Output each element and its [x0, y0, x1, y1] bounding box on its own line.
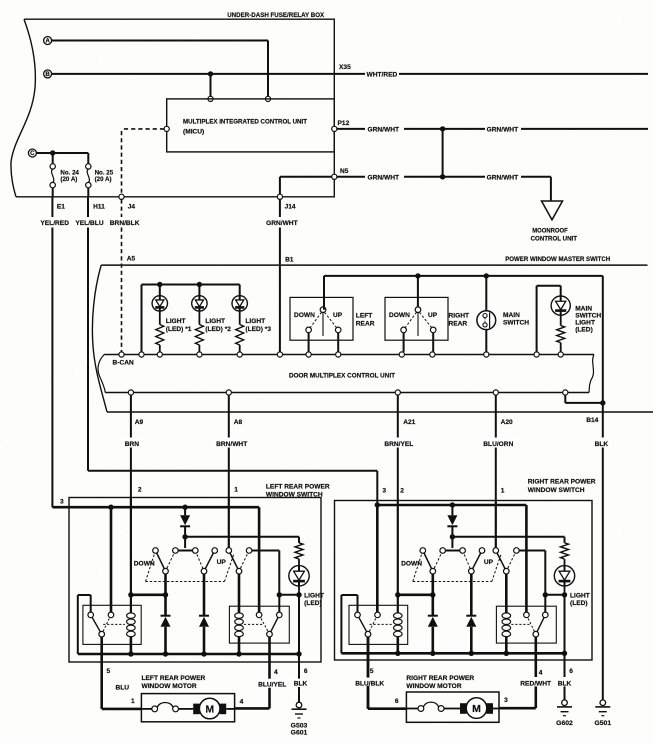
svg-text:MULTIPLEX INTEGRATED CONTROL U: MULTIPLEX INTEGRATED CONTROL UNIT — [183, 118, 307, 125]
diode D3 — [466, 615, 476, 617]
wire BRN/YEL (A21 down) — [397, 395, 399, 437]
wire resistor to LED — [298, 559, 300, 566]
op-amp U1 MICU box — [167, 99, 335, 152]
connector P12 pin — [332, 126, 337, 131]
svg-text:REAR: REAR — [449, 320, 468, 327]
svg-text:LIGHT: LIGHT — [245, 318, 265, 325]
wire main switch to unit — [485, 330, 487, 352]
wire pin5 (armature to motor) — [100, 637, 103, 709]
ground G503/G601 — [296, 702, 302, 708]
relay K2 contact 1 — [524, 612, 530, 618]
node B — [44, 70, 52, 78]
wire pin5 (BLU/BLK) — [367, 637, 370, 677]
wire BLK (B14 down) — [602, 403, 604, 438]
wire LED to return — [298, 586, 300, 595]
svg-text:GRN/WHT: GRN/WHT — [487, 174, 518, 181]
switch SW3 main switch — [477, 311, 496, 330]
node B1 pin — [277, 352, 282, 357]
wire WHT/RED — [334, 73, 365, 75]
node switch pivot — [163, 568, 169, 574]
svg-text:YEL/BLU: YEL/BLU — [75, 220, 103, 227]
switch blade DOWN (solid) — [423, 551, 433, 572]
svg-text:B14: B14 — [586, 417, 598, 424]
switch SW1 left rear (master) — [290, 297, 353, 340]
svg-text:M: M — [472, 703, 481, 715]
svg-text:RIGHT REAR POWER: RIGHT REAR POWER — [406, 675, 474, 682]
junction bus — [163, 651, 168, 656]
connector J14 pin — [277, 194, 282, 199]
LED light (LED) *2 — [192, 296, 207, 311]
svg-text:UP: UP — [217, 559, 227, 566]
svg-text:J14: J14 — [285, 203, 296, 210]
wire C to fuses — [37, 152, 89, 154]
node left-rear DOWN pin — [306, 352, 311, 357]
svg-text:LIGHT: LIGHT — [205, 318, 225, 325]
switch blade mid (solid) — [471, 551, 482, 572]
node switch contact — [246, 548, 252, 554]
svg-text:BLK: BLK — [558, 680, 572, 687]
LED switch light — [289, 566, 309, 586]
switch blade mid (solid) — [204, 551, 215, 572]
wire right-rear pivot feed — [417, 276, 419, 307]
moonroof control unit connector triangle — [542, 201, 563, 220]
wire pin3 to relay contact — [110, 507, 113, 612]
svg-text:LIGHT: LIGHT — [575, 320, 595, 327]
wire BRN/WHT (A8 down) — [228, 395, 230, 437]
node A20 pin — [493, 390, 498, 395]
svg-text:1: 1 — [234, 487, 238, 494]
svg-text:(MICU): (MICU) — [183, 128, 204, 135]
node switch contact — [173, 548, 179, 554]
switch blade DOWN alt (dashed) — [433, 551, 443, 572]
svg-text:LEFT REAR POWER: LEFT REAR POWER — [266, 483, 330, 490]
wire LED2 to resistor — [198, 311, 200, 324]
relay K2 armature — [533, 631, 539, 637]
wire fuse24 to E1 — [52, 188, 54, 197]
svg-text:X35: X35 — [339, 64, 351, 71]
wire B drop to MICU — [210, 74, 212, 97]
svg-text:WINDOW SWITCH: WINDOW SWITCH — [528, 487, 585, 494]
node switch contact — [420, 548, 426, 554]
wire pin3 corner drop — [525, 505, 528, 612]
relay K2 blade — [270, 615, 280, 634]
svg-text:BLU: BLU — [116, 684, 130, 691]
svg-text:2: 2 — [400, 488, 404, 495]
wire LED supply bus — [142, 284, 240, 286]
wire pin6 (BLK) — [298, 654, 300, 679]
relay K2 blade alt (dashed) — [259, 615, 269, 634]
node A9 pin — [128, 390, 133, 395]
svg-text:DOWN: DOWN — [134, 560, 155, 567]
svg-text:(LED): (LED) — [304, 600, 322, 607]
wire coil K2 to bus — [238, 637, 241, 654]
svg-text:BLU/ORN: BLU/ORN — [483, 441, 513, 448]
relay K1 blade alt (dashed) — [102, 615, 111, 634]
node main light return pin — [558, 352, 563, 357]
junction LED1 feed — [157, 282, 162, 287]
junction pin3/diode — [450, 502, 455, 507]
junction right-rear feed — [415, 273, 420, 278]
svg-text:(LED) *3: (LED) *3 — [245, 326, 271, 333]
wire LED to return — [564, 586, 566, 595]
wire contact to LED node — [252, 550, 280, 552]
svg-text:5: 5 — [370, 668, 374, 675]
diode D1 (supply) — [184, 507, 186, 515]
wire switch common feed — [452, 536, 564, 538]
junction bus — [469, 651, 474, 656]
svg-text:SWITCH: SWITCH — [503, 319, 529, 326]
switch blade UP (solid) — [496, 551, 507, 572]
wire resistor R2 to unit — [198, 345, 200, 352]
svg-text:E1: E1 — [57, 203, 65, 210]
wire LED bottom link — [545, 594, 564, 596]
connector N5 pin — [332, 174, 337, 179]
wire GRN/WHT from N5 — [337, 176, 365, 178]
relay K1 blade — [91, 615, 102, 634]
node switch pivot — [430, 568, 436, 574]
wire common to inner contacts — [184, 537, 186, 548]
svg-text:BRN: BRN — [125, 441, 140, 448]
switch linkage (dashed) — [413, 551, 423, 582]
node switch contact — [193, 548, 199, 554]
svg-text:G501: G501 — [594, 720, 611, 727]
svg-text:MAIN: MAIN — [575, 306, 592, 313]
svg-text:A: A — [45, 38, 50, 45]
node switch pivot — [236, 568, 242, 574]
svg-text:GRN/WHT: GRN/WHT — [368, 175, 400, 182]
relay K1 box — [83, 605, 141, 644]
svg-text:UP: UP — [333, 312, 343, 319]
svg-text:3: 3 — [382, 488, 386, 495]
MICU pin (B drop) — [208, 96, 213, 101]
node switch contact — [479, 548, 485, 554]
door multiplex control unit bottom edge — [105, 392, 589, 394]
switch linkage (dashed) — [146, 551, 156, 582]
resistor R4 (main switch light) — [557, 326, 565, 343]
svg-text:LIGHT: LIGHT — [166, 318, 186, 325]
wire LED1 drop — [159, 285, 161, 297]
junction bus — [236, 651, 241, 656]
junction bus — [430, 651, 435, 656]
junction N5 wire — [440, 174, 445, 179]
junction on B wire — [208, 71, 213, 76]
svg-text:B: B — [45, 71, 50, 78]
LED main switch light — [551, 296, 570, 315]
wire pin3 feed (YEL/RED) — [52, 506, 259, 509]
svg-text:1: 1 — [501, 488, 505, 495]
relay K2 armature — [267, 631, 273, 637]
svg-text:4: 4 — [240, 698, 244, 705]
svg-text:GRN/WHT: GRN/WHT — [266, 220, 298, 227]
node switch contact — [460, 548, 466, 554]
node switch contact — [153, 548, 159, 554]
svg-text:A8: A8 — [234, 419, 243, 426]
relay K2 linkage (dashed) — [511, 623, 530, 625]
relay K2 coil — [235, 613, 244, 619]
wire LED2 drop — [198, 285, 200, 297]
switch blade DOWN (solid) — [156, 551, 166, 572]
relay K2 contact 1 — [256, 612, 262, 618]
wire feed to resistor R5 — [564, 537, 566, 543]
relay K1 armature — [99, 631, 105, 637]
svg-text:4: 4 — [539, 670, 543, 677]
svg-text:6: 6 — [569, 668, 573, 675]
master switch box bottom edge — [107, 411, 653, 413]
relay K2 contact 2 — [277, 612, 283, 618]
door multiplex control unit torn right edge — [589, 355, 594, 393]
relay K1 contact 1 — [355, 612, 361, 618]
node switch contact — [440, 548, 446, 554]
node A8 pin — [226, 390, 231, 395]
node switch contact — [493, 548, 499, 554]
wire relay K1 NC wrap — [357, 595, 359, 612]
node LED3 pin — [237, 352, 242, 357]
wire resistor R1 to unit — [159, 345, 161, 352]
switch blade mid alt (dashed) — [195, 551, 204, 572]
relay K2 coil — [502, 613, 511, 619]
wire ground bus — [78, 653, 299, 656]
wire LED bottom link — [279, 594, 299, 596]
svg-text:LIGHT: LIGHT — [570, 593, 590, 600]
wire LED3 to resistor — [239, 311, 241, 324]
svg-text:A5: A5 — [127, 255, 136, 262]
svg-text:YEL/RED: YEL/RED — [40, 220, 69, 227]
svg-text:MAIN: MAIN — [503, 312, 520, 319]
svg-text:1: 1 — [131, 698, 135, 705]
relay K1 blade — [358, 615, 369, 634]
svg-text:RIGHT: RIGHT — [449, 312, 470, 319]
svg-text:A20: A20 — [501, 419, 513, 426]
wire YEL/BLU (H11 down) — [87, 197, 89, 217]
svg-text:POWER WINDOW MASTER SWITCH: POWER WINDOW MASTER SWITCH — [505, 256, 610, 263]
svg-text:G602: G602 — [556, 720, 573, 727]
node switch contact — [226, 548, 232, 554]
svg-text:3: 3 — [60, 499, 64, 506]
relay K1 contact 1 — [88, 612, 94, 618]
wire B to X35 — [52, 73, 334, 75]
relay K2 box — [229, 606, 289, 643]
svg-text:GRN/WHT: GRN/WHT — [487, 127, 518, 134]
junction main-switch feed — [484, 273, 489, 278]
svg-text:UP: UP — [428, 312, 438, 319]
svg-text:(LED): (LED) — [575, 327, 593, 334]
wire link GRN/WHT vertical — [442, 129, 444, 177]
wire DOWN pivot drop — [164, 574, 167, 616]
switch blade mid alt (dashed) — [463, 551, 472, 572]
svg-text:WINDOW MOTOR: WINDOW MOTOR — [406, 683, 461, 690]
svg-text:(20 A): (20 A) — [95, 176, 112, 183]
node main switch pin — [484, 352, 489, 357]
junction bus — [201, 651, 206, 656]
relay K2 box — [496, 606, 556, 643]
node switch contact — [514, 548, 520, 554]
node switch pivot — [469, 568, 475, 574]
svg-text:A9: A9 — [135, 419, 144, 426]
svg-text:BRN/YEL: BRN/YEL — [384, 441, 413, 448]
wire J14 to N5 — [279, 177, 281, 194]
junction bus — [504, 651, 509, 656]
svg-text:(LED) *2: (LED) *2 — [205, 326, 231, 333]
svg-text:BRN/BLK: BRN/BLK — [110, 220, 140, 227]
wire to relay NC contact — [544, 595, 546, 612]
LED switch light — [554, 566, 574, 586]
svg-text:LEFT: LEFT — [356, 312, 372, 319]
svg-text:A21: A21 — [403, 419, 415, 426]
left rear power window switch box — [69, 498, 321, 663]
relay K2 linkage (dashed) — [244, 623, 264, 625]
relay K1 linkage (dashed) — [103, 623, 125, 625]
svg-text:CONTROL UNIT: CONTROL UNIT — [531, 236, 577, 243]
junction pin3/diode — [182, 505, 187, 510]
junction B14 — [600, 400, 605, 405]
resistor R5 (switch light) — [561, 543, 569, 559]
svg-text:LIGHT: LIGHT — [304, 593, 324, 600]
relay K1 linkage (dashed) — [370, 623, 392, 625]
svg-text:LEFT REAR POWER: LEFT REAR POWER — [142, 675, 206, 682]
wire mid pivot drop — [470, 574, 473, 616]
wire resistor R3 to unit — [239, 345, 241, 352]
wire GRN/WHT from P12 — [337, 128, 365, 130]
svg-text:4: 4 — [274, 669, 278, 676]
switch blade UP alt (dashed) — [239, 551, 249, 572]
wire relay K1 NC wrap — [90, 595, 92, 612]
switch blade DOWN alt (dashed) — [166, 551, 176, 572]
junction pin2/pivot link — [128, 592, 133, 597]
svg-text:UNDER-DASH FUSE/RELAY BOX: UNDER-DASH FUSE/RELAY BOX — [227, 12, 325, 19]
svg-text:RIGHT REAR POWER: RIGHT REAR POWER — [528, 479, 596, 486]
relay K1 coil — [127, 613, 136, 619]
node switch pivot — [504, 568, 510, 574]
wire mid pivot drop — [203, 574, 206, 616]
diode D3 — [199, 615, 209, 617]
svg-text:REAR: REAR — [356, 320, 375, 327]
wire fuse25 to H11 — [87, 188, 89, 197]
wire left-rear pivot feed — [323, 307, 325, 310]
relay K1 contact 2 — [108, 612, 114, 618]
svg-text:(LED) *1: (LED) *1 — [166, 326, 192, 333]
wire YEL/RED (E1 down) — [51, 197, 53, 217]
svg-text:BLU/BLK: BLU/BLK — [355, 680, 384, 687]
wire BRN/BLK dashed (J4 down) — [121, 199, 123, 217]
wire LED node to bus — [564, 595, 566, 654]
relay K1 blade alt (dashed) — [368, 615, 378, 634]
wire pin5 (armature to motor) — [367, 637, 370, 709]
master switch box torn left edge — [92, 265, 107, 412]
wire DOWN pivot drop — [431, 574, 434, 616]
svg-text:N5: N5 — [340, 168, 349, 175]
wire switch common feed — [185, 536, 299, 538]
svg-text:C: C — [30, 150, 35, 157]
wire resistor to LED — [564, 559, 566, 566]
switch SW2 right rear (master) — [385, 297, 448, 340]
wire coil K1 to bus — [130, 637, 133, 654]
master switch box top edge — [101, 264, 647, 266]
wire LED node to bus — [298, 595, 300, 654]
wire to relay NC contact — [278, 595, 280, 612]
node main light feed pin — [534, 352, 539, 357]
diode D1 (supply) — [451, 505, 453, 515]
junction LED return — [277, 592, 282, 597]
wire LED to resistor R4 — [560, 315, 562, 325]
resistor R5 (switch light) — [295, 543, 303, 559]
wire to fuse No.24 — [52, 153, 54, 164]
relay K1 armature — [365, 631, 371, 637]
junction diode cathode — [182, 534, 187, 539]
relay K1 coil — [394, 613, 403, 619]
svg-text:SWITCH: SWITCH — [575, 313, 601, 320]
wire master switch internal bus — [324, 275, 603, 277]
node switch pivot — [201, 568, 207, 574]
diode D2 — [428, 615, 438, 617]
diode D2 — [161, 615, 171, 617]
svg-text:G601: G601 — [291, 730, 308, 737]
svg-text:UP: UP — [484, 559, 494, 566]
svg-text:2: 2 — [138, 487, 142, 494]
node LED1 pin — [157, 352, 162, 357]
wire UP pivot to relay coil — [238, 574, 241, 613]
LED light (LED) *1 — [152, 296, 167, 311]
resistor R1 (LED1) — [156, 325, 164, 346]
junction C wire — [50, 150, 55, 155]
node A — [44, 37, 52, 45]
svg-text:BRN/WHT: BRN/WHT — [216, 441, 247, 448]
door multiplex control unit top edge — [104, 354, 594, 356]
connector J4 pin — [119, 194, 124, 199]
wire B14 link — [564, 395, 566, 403]
svg-text:GRN/WHT: GRN/WHT — [368, 127, 400, 134]
svg-text:DOWN: DOWN — [401, 560, 422, 567]
wire pin4 (RED/WHT) — [534, 637, 537, 677]
wire common to inner contacts — [451, 537, 453, 548]
svg-text:G503: G503 — [291, 723, 308, 730]
junction diode cathode — [450, 534, 455, 539]
svg-text:J4: J4 — [128, 203, 136, 210]
svg-text:(LED): (LED) — [570, 600, 588, 607]
relay K2 contact 2 — [543, 612, 549, 618]
svg-text:B-CAN: B-CAN — [113, 359, 134, 366]
wire pin5 corner — [102, 708, 142, 711]
wire pin3 corner drop — [258, 507, 261, 612]
wire coil K2 to bus — [505, 637, 508, 653]
junction pin2/pivot link — [395, 592, 400, 597]
wire UP pivot to relay coil — [505, 574, 508, 613]
fuse No.25 (20A) — [86, 164, 91, 169]
fuse No.24 (20A) — [50, 164, 55, 169]
junction P12 wire — [440, 126, 445, 131]
node bus pin — [139, 352, 144, 357]
MICU left pin — [164, 126, 169, 131]
right rear power window switch box — [335, 501, 593, 661]
junction LED return — [543, 592, 548, 597]
svg-text:MOONROOF: MOONROOF — [532, 228, 568, 235]
wire main switch light feed — [536, 286, 538, 352]
wire pin3 feed (YEL/BLU) — [377, 504, 526, 507]
wire GRN/WHT (J14 down B1) — [279, 199, 281, 217]
node right-rear UP pin — [430, 352, 435, 357]
svg-text:DOOR MULTIPLEX CONTROL UNIT: DOOR MULTIPLEX CONTROL UNIT — [289, 373, 395, 380]
wire pin4 (BLU/YEL) — [268, 637, 271, 679]
LED light (LED) *3 — [232, 296, 247, 311]
svg-text:(20 A): (20 A) — [60, 176, 77, 183]
dashed wire J4 to MICU — [122, 128, 165, 130]
junction LED2 feed — [197, 282, 202, 287]
motor M2 right rear power window — [406, 692, 499, 722]
svg-text:WINDOW MOTOR: WINDOW MOTOR — [142, 683, 197, 690]
node right-rear DOWN pin — [399, 352, 404, 357]
svg-text:M: M — [205, 703, 214, 715]
relay K1 box — [349, 605, 408, 644]
svg-text:6: 6 — [304, 668, 308, 675]
